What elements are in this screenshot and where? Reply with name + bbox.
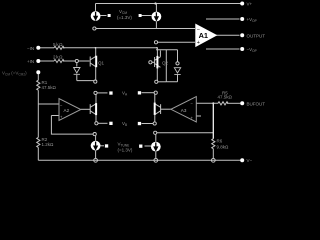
svg-text:2kΩ: 2kΩ — [53, 55, 63, 60]
svg-text:+: + — [197, 40, 200, 46]
svg-text:47.5kΩ: 47.5kΩ — [218, 95, 233, 100]
svg-text:OUTPUT: OUTPUT — [247, 33, 266, 38]
svg-text:5kΩ: 5kΩ — [53, 42, 63, 47]
svg-text:9.8kΩ: 9.8kΩ — [217, 145, 230, 150]
svg-text:1.2kΩ: 1.2kΩ — [42, 142, 55, 147]
svg-text:Q2: Q2 — [162, 60, 169, 65]
svg-text:(=1.3V): (=1.3V) — [117, 15, 132, 20]
svg-text:+IN: +IN — [27, 59, 34, 64]
svg-text:Q1: Q1 — [98, 60, 105, 65]
svg-text:47.5kΩ: 47.5kΩ — [42, 85, 57, 90]
svg-text:V+: V+ — [247, 2, 253, 7]
svg-text:(=1.3V): (=1.3V) — [118, 147, 133, 152]
svg-text:−IN: −IN — [27, 46, 34, 51]
svg-text:A3: A3 — [181, 108, 187, 113]
svg-text:−: − — [197, 27, 200, 33]
svg-text:BUFOUT: BUFOUT — [247, 101, 266, 106]
svg-text:A2: A2 — [64, 108, 70, 113]
svg-text:V−: V− — [247, 158, 253, 163]
svg-text:R6: R6 — [217, 139, 223, 144]
